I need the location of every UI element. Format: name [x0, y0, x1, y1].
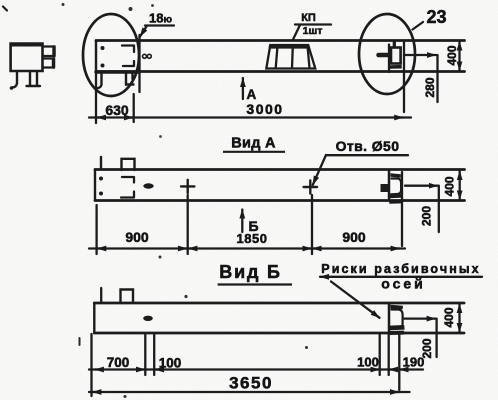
hatch plate KP: [266, 45, 315, 69]
view B dim 200: [404, 317, 436, 319]
top view plate corner mark top: [122, 46, 134, 53]
extension 630 left: [95, 72, 97, 123]
svg-text:700: 700: [107, 355, 130, 370]
top view beam bottom edge: [96, 70, 465, 73]
dim line 3650: [89, 391, 410, 393]
view arrow B: [241, 210, 243, 233]
leader 23: [413, 22, 424, 30]
dim 280 top view: [404, 54, 436, 56]
leader 18: [140, 27, 147, 37]
svg-text:900: 900: [125, 229, 149, 245]
view B extensions: [90, 334, 92, 396]
view B dim arrows left group: [95, 368, 102, 370]
view A loop tab: [122, 159, 135, 170]
view A dot 1: [99, 177, 103, 181]
top view weld dash: [379, 53, 388, 58]
svg-text:осей: осей: [381, 276, 426, 292]
view A right pin bracket: [388, 171, 391, 200]
svg-text:200: 200: [420, 206, 434, 226]
view A extensions: [95, 205, 97, 254]
view A cross 2: [304, 180, 317, 193]
top view left plate vertical: [138, 35, 140, 92]
svg-text:1850: 1850: [237, 231, 268, 246]
view B loop tick: [100, 288, 102, 302]
section sketch tab 1: [43, 47, 55, 57]
top view beam right edge: [403, 41, 405, 113]
view A beam bottom edge: [95, 199, 465, 202]
view B beam top edge: [94, 302, 464, 305]
top view pin square: [391, 48, 401, 64]
view B beam bottom edge: [94, 332, 464, 335]
top view plate dot 2: [101, 64, 105, 68]
leader KP: [293, 25, 300, 40]
section sketch leg left: [12, 73, 17, 88]
view A dim 400: [459, 171, 461, 200]
riski underline arrow: [320, 276, 482, 278]
svg-text:Вид Б: Вид Б: [219, 262, 281, 282]
svg-text:280: 280: [423, 77, 437, 97]
svg-text:Вид А: Вид А: [231, 136, 276, 152]
view A right pin blob: [381, 184, 390, 192]
top view beam left edge: [95, 41, 97, 72]
view B pin D-bracket: [391, 310, 403, 329]
view A cross 1: [181, 180, 194, 193]
svg-text:400: 400: [442, 307, 456, 327]
view arrow A: [242, 78, 244, 99]
section sketch tab 2: [43, 59, 55, 68]
arrow 630 right: [127, 116, 134, 118]
view A beam right edge / extension: [401, 172, 403, 246]
leader Otv50: [313, 155, 326, 185]
view B dim arrows right group: [373, 368, 379, 370]
arrow 630 left: [97, 116, 104, 118]
svg-text:1шт: 1шт: [303, 25, 323, 37]
top view beam top edge: [96, 39, 465, 42]
svg-text:100: 100: [357, 355, 379, 370]
top view hook right: [126, 73, 134, 85]
top view left detail ellipse: [83, 14, 139, 96]
view A beam left edge: [94, 170, 96, 201]
svg-text:А: А: [247, 87, 257, 102]
view B beam left edge: [93, 303, 95, 333]
view A corner marks: [121, 177, 134, 198]
view B hole blob: [143, 316, 153, 321]
svg-text:Риски разбивочных: Риски разбивочных: [321, 262, 480, 276]
noise specks: [62, 3, 65, 6]
view A hole blob: [143, 183, 153, 188]
top view right ellipse: [359, 14, 415, 94]
view A dim arrows: [97, 247, 104, 249]
arrow 3000 right: [397, 116, 404, 118]
view A loop tick: [100, 157, 102, 169]
svg-text:23: 23: [426, 7, 446, 27]
svg-text:3650: 3650: [229, 374, 273, 393]
top view right inner line: [388, 45, 390, 73]
view A beam top edge: [95, 168, 465, 171]
top view bottom edge thick segment: [96, 70, 139, 73]
svg-text:КП: КП: [301, 12, 316, 24]
leader riski: [331, 282, 380, 318]
svg-text:400: 400: [445, 45, 459, 65]
extension 630 right: [133, 94, 135, 122]
view A dim line: [89, 247, 405, 249]
svg-text:3000: 3000: [246, 101, 283, 117]
svg-text:900: 900: [342, 229, 366, 245]
section sketch leg right: [27, 73, 41, 87]
dim line 3000/630: [89, 116, 411, 118]
top view plate dot 1: [101, 46, 105, 50]
view B dim 400: [458, 304, 460, 332]
svg-text:400: 400: [443, 176, 457, 196]
svg-text:630: 630: [105, 102, 129, 118]
dim 400 top view: [458, 42, 460, 71]
view A dot 2: [99, 192, 103, 196]
view B loop tab: [121, 290, 134, 304]
top view strop hole mark: [143, 54, 147, 58]
svg-text:200: 200: [420, 338, 434, 358]
section sketch square: [11, 44, 43, 72]
svg-text:Отв. Ø50: Отв. Ø50: [336, 138, 400, 154]
svg-text:100: 100: [159, 356, 182, 371]
view A dim 200: [405, 185, 438, 187]
view B dim line 1: [89, 368, 423, 370]
top view plate corner mark bottom: [123, 61, 134, 66]
view B pin vertical: [388, 304, 391, 334]
top view hook left: [97, 73, 102, 88]
